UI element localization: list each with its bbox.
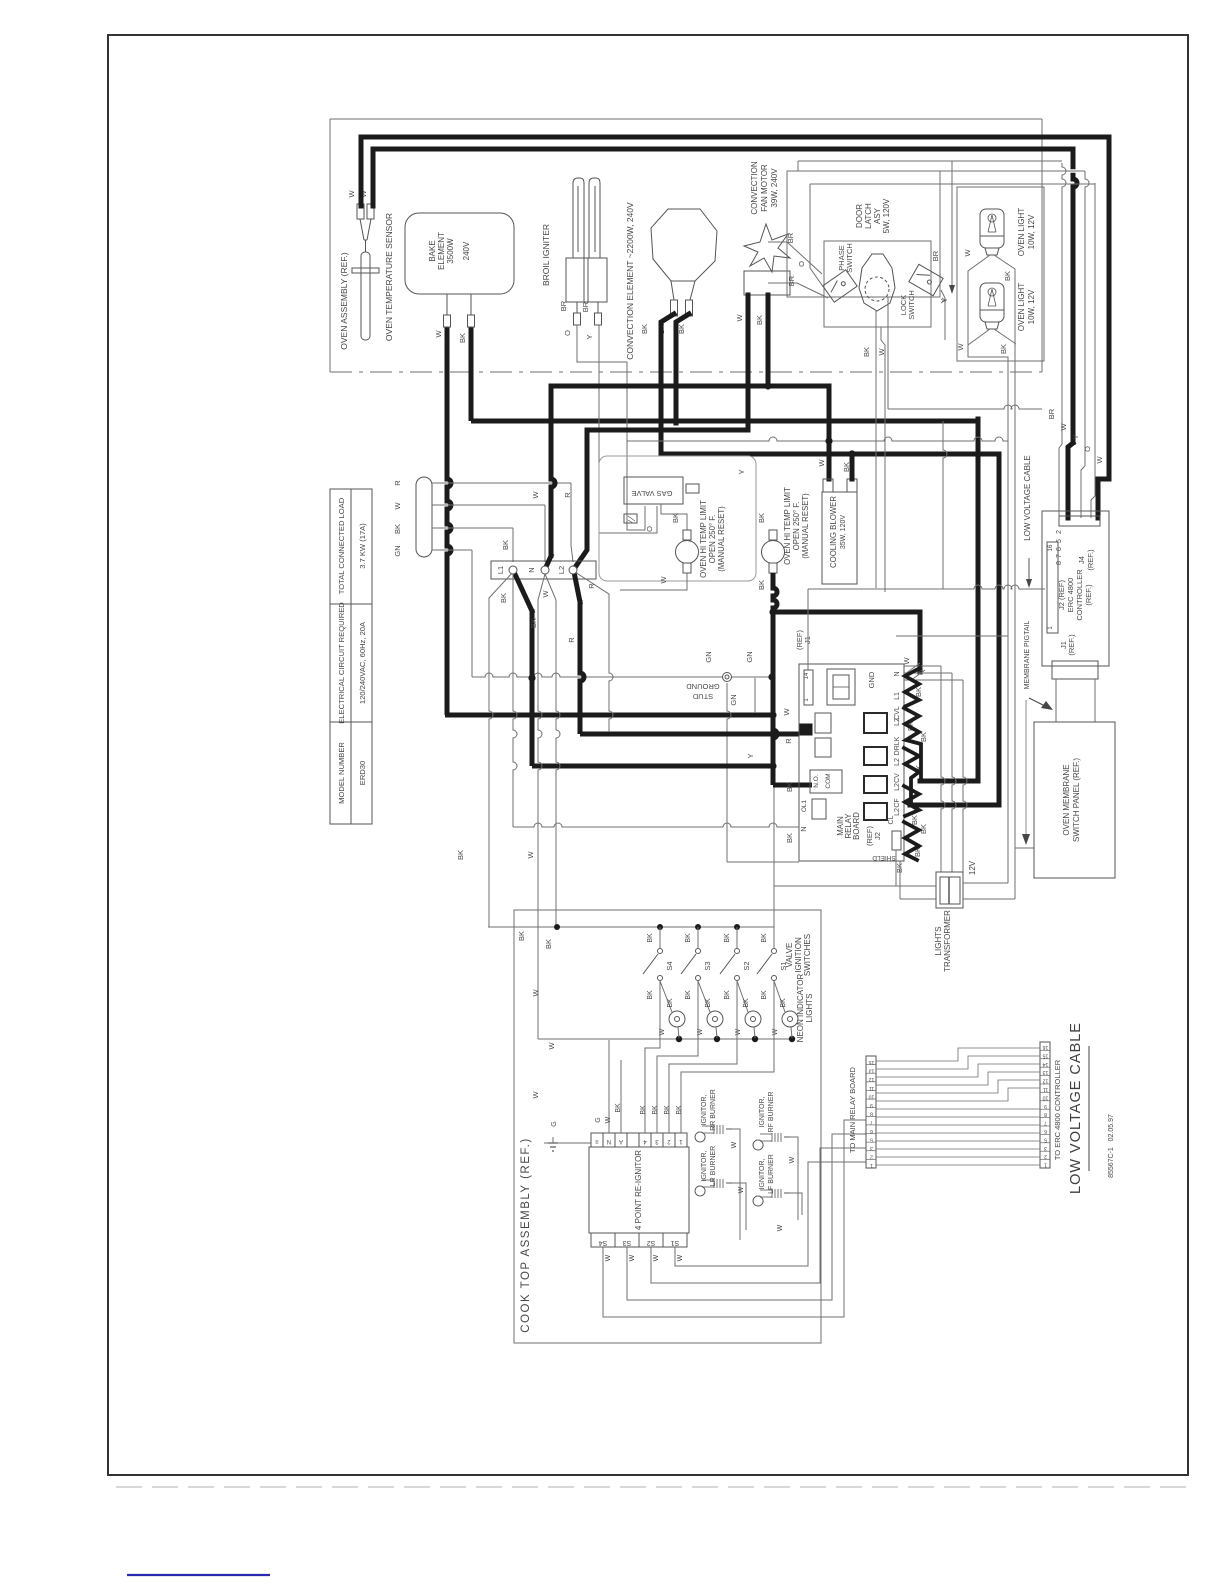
svg-text:5: 5 [870, 1136, 873, 1142]
svg-text:OVEN HI TEMP LIMIT: OVEN HI TEMP LIMIT [783, 487, 792, 565]
cooling blower box [822, 492, 857, 584]
ERC 4800 controller box [1042, 511, 1109, 666]
svg-text:LF BURNER: LF BURNER [768, 1154, 775, 1194]
membrane pigtail arrow 1 [1029, 698, 1047, 707]
svg-text:BK: BK [640, 324, 649, 334]
bake element terminals [444, 315, 451, 327]
wire transformer connections [774, 885, 936, 887]
oven light 1 wires [968, 255, 1008, 883]
wire zigzag N [905, 668, 920, 706]
svg-text:L1: L1 [894, 692, 901, 700]
wire L2 R drop [575, 572, 609, 594]
svg-text:LOW VOLTAGE CABLE: LOW VOLTAGE CABLE [1023, 455, 1032, 541]
svg-text:11: 11 [869, 1085, 874, 1091]
wire door latch right leads [797, 161, 799, 171]
re-ignitor top wires [608, 1040, 610, 1133]
svg-text:S2: S2 [647, 1239, 656, 1246]
svg-text:120/240VAC, 60Hz, 20A: 120/240VAC, 60Hz, 20A [358, 621, 367, 704]
svg-text:N: N [527, 567, 536, 572]
wire door latch leads [768, 242, 822, 274]
power cord [416, 477, 432, 557]
svg-text:W: W [877, 348, 886, 356]
svg-text:12: 12 [1043, 1078, 1049, 1084]
svg-text:R: R [393, 480, 402, 486]
svg-text:13: 13 [1043, 1069, 1049, 1075]
wire W thick from H386 to N [551, 386, 555, 558]
svg-text:BK: BK [761, 990, 768, 1000]
svg-text:W: W [735, 1028, 742, 1035]
svg-text:CV: CV [894, 773, 901, 783]
gas valve wires [661, 504, 687, 530]
svg-text:15: 15 [869, 1059, 875, 1065]
bake element outline [405, 213, 514, 294]
cook top assembly box [514, 910, 821, 1343]
svg-text:OVEN LIGHT: OVEN LIGHT [1017, 208, 1026, 257]
svg-text:Y: Y [940, 297, 949, 302]
svg-text:CL: CL [888, 815, 895, 824]
svg-text:2: 2 [870, 1154, 873, 1160]
svg-text:OVEN ASSEMBLY (REF.): OVEN ASSEMBLY (REF.) [339, 252, 349, 350]
junction dots hi temp 2 [769, 608, 776, 615]
relay component K1 [827, 669, 855, 705]
door latch outer box [787, 171, 940, 297]
wire conv element lead 1 thick [661, 314, 674, 454]
valve ignition switch S3 [697, 927, 699, 948]
wire lock switch route [943, 421, 947, 589]
oven lights enclosure [957, 187, 1044, 361]
membrane pigtail arrow 2 [1025, 700, 1027, 838]
svg-text:IGNITOR,: IGNITOR, [759, 1096, 766, 1127]
phase switch symbol [823, 270, 857, 302]
svg-text:Y: Y [746, 753, 755, 758]
svg-text:COM: COM [825, 773, 832, 788]
svg-text:BK: BK [862, 347, 871, 357]
valve ignition switch S1 [773, 927, 775, 948]
svg-text:BK: BK [914, 687, 923, 697]
svg-text:L2: L2 [894, 758, 901, 766]
svg-text:BR: BR [787, 275, 796, 286]
wire L2 thin drop [545, 574, 556, 600]
wire phase switch O route [887, 297, 889, 409]
svg-text:240V: 240V [462, 241, 471, 260]
svg-text:ELEMENT: ELEMENT [437, 232, 446, 270]
svg-text:W: W [605, 1254, 612, 1261]
svg-text:W: W [629, 1254, 636, 1261]
svg-text:J2 (REF): J2 (REF) [1057, 579, 1066, 610]
svg-text:RR BURNER: RR BURNER [710, 1089, 717, 1131]
oven hi temp limit 2 [769, 530, 777, 540]
wire blower BK thick [850, 454, 855, 479]
svg-text:BK: BK [685, 990, 692, 1000]
wire cord R [432, 482, 571, 484]
svg-text:Y: Y [737, 469, 746, 474]
svg-text:8: 8 [1044, 1111, 1047, 1117]
svg-text:W: W [541, 590, 550, 598]
ignitor RF burner [753, 1140, 763, 1150]
svg-text:IGNITOR,: IGNITOR, [701, 1150, 708, 1181]
svg-text:BR: BR [581, 301, 590, 312]
svg-text:7: 7 [870, 1119, 873, 1125]
svg-text:GN: GN [704, 651, 713, 662]
svg-text:W: W [547, 1042, 556, 1050]
svg-text:5: 5 [1056, 539, 1063, 543]
relay dark K6 [864, 776, 887, 793]
convection fan motor [744, 224, 790, 295]
svg-text:R: R [587, 583, 596, 589]
svg-text:BR: BR [931, 250, 940, 261]
svg-text:S3: S3 [623, 1239, 632, 1246]
svg-text:ERC 4800: ERC 4800 [1066, 578, 1075, 613]
svg-text:O: O [563, 330, 572, 336]
wire zigzag CF L2 [904, 822, 919, 860]
svg-text:7: 7 [1056, 554, 1063, 558]
oven light 2 wires [968, 329, 990, 345]
wire thin W to J4 pin [1062, 163, 1066, 444]
svg-text:ELECTRICAL CIRCUIT REQUIRED: ELECTRICAL CIRCUIT REQUIRED [337, 602, 346, 724]
svg-text:5W, 120V: 5W, 120V [882, 198, 891, 233]
svg-text:W: W [782, 708, 791, 716]
connector TO MAIN RELAY BOARD [866, 1056, 876, 1168]
svg-text:LATCH: LATCH [864, 203, 873, 229]
svg-text:8: 8 [870, 1111, 873, 1117]
door latch inner box [824, 241, 931, 327]
oven light 1 bulb [980, 209, 1004, 248]
wire S4 to strip [603, 1120, 866, 1317]
svg-text:IGNITOR,: IGNITOR, [701, 1094, 708, 1125]
junction dot ground [768, 673, 775, 680]
svg-text:2: 2 [1044, 1153, 1047, 1159]
svg-text:L1: L1 [496, 566, 505, 574]
junction dot blower W [825, 437, 832, 444]
bake element leads [446, 294, 448, 315]
svg-text:O: O [797, 261, 806, 267]
wire conv fan W thick [576, 295, 748, 566]
svg-text:10: 10 [1043, 1094, 1049, 1100]
svg-text:SWITCH: SWITCH [907, 290, 916, 320]
wire cord BK [432, 527, 513, 529]
oven light 2 bulb [980, 283, 1004, 322]
svg-text:W: W [1095, 456, 1104, 464]
broil igniter [566, 178, 607, 325]
svg-text:16: 16 [1043, 1044, 1049, 1050]
svg-text:W: W [772, 1028, 779, 1035]
wire hi temp 2 branch H612 thick [773, 612, 920, 672]
ignitor LR burner [695, 1186, 705, 1196]
svg-text:W: W [738, 1186, 745, 1193]
wire cord W [432, 504, 545, 506]
svg-text:DOOR: DOOR [855, 204, 864, 228]
re-ignitor bottom terminal strip [591, 1233, 615, 1247]
svg-text:BK: BK [757, 580, 766, 590]
wire thick bus A [361, 137, 1109, 518]
wire cord GN ground [432, 549, 472, 551]
controller J4 connector [1059, 516, 1100, 526]
svg-text:LIGHTS: LIGHTS [805, 994, 814, 1023]
wire S3 to strip [627, 1134, 866, 1300]
svg-text:39W, 240V: 39W, 240V [770, 168, 779, 208]
svg-text:W: W [902, 657, 911, 665]
svg-text:BK: BK [647, 933, 654, 943]
lights transformer [936, 872, 963, 908]
svg-text:FAN MOTOR: FAN MOTOR [760, 164, 769, 212]
svg-text:BK: BK [544, 939, 553, 949]
svg-text:N.O.: N.O. [813, 774, 820, 788]
svg-text:(REF.): (REF.) [1084, 584, 1093, 606]
neon indicator light 4 [774, 981, 785, 1012]
svg-text:Y: Y [1071, 434, 1080, 439]
wire gas train thin H441 [627, 437, 1008, 441]
svg-text:S1: S1 [671, 1239, 680, 1246]
svg-text:OVEN MEMBRANE: OVEN MEMBRANE [1062, 764, 1071, 835]
svg-text:W: W [777, 1224, 784, 1231]
svg-text:BK: BK [501, 540, 510, 550]
wire N pin diagonals [905, 663, 920, 674]
svg-text:BR: BR [559, 300, 568, 311]
svg-text:(MANUAL RESET): (MANUAL RESET) [717, 506, 726, 572]
svg-text:SHIELD: SHIELD [872, 854, 896, 861]
oven hi temp limit 1 [683, 530, 691, 540]
svg-text:COOK TOP ASSEMBLY (REF.): COOK TOP ASSEMBLY (REF.) [520, 1137, 532, 1332]
svg-text:10W, 12V: 10W, 12V [1027, 214, 1036, 249]
svg-text:5: 5 [1044, 1136, 1047, 1142]
svg-text:CONVECTION: CONVECTION [750, 161, 759, 215]
svg-text:J4: J4 [1077, 556, 1086, 564]
svg-text:LR BURNER: LR BURNER [710, 1146, 717, 1186]
svg-text:6: 6 [1056, 547, 1063, 551]
oven membrane switch panel box [1034, 722, 1115, 878]
svg-text:COOLING BLOWER: COOLING BLOWER [829, 496, 838, 568]
svg-text:BR: BR [786, 232, 795, 243]
svg-text:TOTAL CONNECTED LOAD: TOTAL CONNECTED LOAD [337, 497, 346, 594]
svg-text:CVL: CVL [894, 706, 901, 720]
svg-text:SWITCH PANEL (REF.): SWITCH PANEL (REF.) [1072, 758, 1081, 842]
svg-text:W: W [731, 1141, 738, 1148]
svg-text:3.7 KW (17A): 3.7 KW (17A) [358, 523, 367, 569]
svg-text:BK: BK [517, 931, 526, 941]
svg-text:G: G [551, 1121, 558, 1126]
wire hi temp 2 bottom thick [773, 573, 777, 785]
svg-text:1: 1 [1044, 1162, 1047, 1168]
svg-text:W: W [735, 314, 744, 322]
svg-text:W: W [963, 249, 972, 257]
svg-text:14: 14 [1043, 1061, 1049, 1067]
svg-text:O: O [645, 526, 654, 532]
svg-text:LOW VOLTAGE CABLE: LOW VOLTAGE CABLE [1068, 1022, 1084, 1194]
svg-text:(REF.): (REF.) [1067, 634, 1076, 656]
wire S1 to strip [675, 1162, 866, 1266]
svg-text:7: 7 [1044, 1120, 1047, 1126]
svg-text:9: 9 [870, 1102, 873, 1108]
wire cook top bus feed [773, 787, 775, 927]
spec table frame [330, 489, 372, 824]
oven assembly boundary box [330, 118, 1042, 120]
svg-text:W: W [817, 459, 826, 467]
svg-text:W: W [605, 1116, 612, 1123]
svg-text:S3: S3 [703, 961, 712, 970]
wire zigzag CV L2 [904, 786, 919, 816]
wire zigzag L1 [904, 708, 921, 781]
svg-text:S4: S4 [665, 961, 674, 970]
terminal pad relay R [799, 724, 812, 735]
svg-text:BOARD: BOARD [852, 812, 861, 840]
wire broil Y [599, 325, 657, 533]
svg-text:BK: BK [724, 933, 731, 943]
terminal block L1 N L2 [491, 561, 596, 579]
relay board J2 connector [892, 831, 901, 850]
svg-text:3500W: 3500W [446, 238, 455, 264]
svg-text:BK: BK [671, 513, 680, 523]
wire conv element lead 2 thick [676, 314, 689, 423]
svg-text:BK: BK [664, 1105, 671, 1115]
svg-text:OVEN HI TEMP LIMIT: OVEN HI TEMP LIMIT [699, 500, 708, 578]
relay board J1 connector [804, 670, 813, 705]
svg-text:BK: BK [761, 933, 768, 943]
4 point re-ignitor box [589, 1147, 689, 1233]
svg-text:BK: BK [919, 732, 928, 742]
svg-text:GROUND: GROUND [686, 682, 720, 691]
svg-text:R: R [784, 738, 793, 744]
svg-text:W: W [531, 491, 540, 499]
ignitor LF burner [753, 1196, 763, 1206]
svg-text:BK: BK [724, 990, 731, 1000]
svg-text:BK: BK [652, 1105, 659, 1115]
svg-text:12V: 12V [968, 860, 977, 875]
svg-text:BK: BK [757, 513, 766, 523]
svg-text:R: R [563, 492, 572, 498]
svg-text:L2: L2 [894, 808, 901, 816]
relay dark K4 [864, 713, 887, 733]
terminal block circles [509, 566, 517, 574]
svg-text:W: W [677, 1254, 684, 1261]
neon indicator light 3 [737, 981, 748, 1012]
svg-text:W: W [1059, 423, 1068, 431]
svg-text:16: 16 [1048, 544, 1054, 551]
valve ignition switch S4 [659, 927, 661, 948]
svg-text:L2: L2 [894, 718, 901, 726]
svg-text:L2: L2 [557, 566, 566, 574]
svg-text:BR: BR [1047, 408, 1056, 419]
svg-text:14: 14 [804, 672, 810, 679]
svg-text:BK: BK [456, 850, 465, 860]
svg-text:BK: BK [499, 593, 508, 603]
wire L1 thin drops [489, 572, 513, 598]
svg-text:≡: ≡ [595, 1138, 599, 1144]
re-ignitor top terminal strip [591, 1133, 603, 1147]
svg-text:8: 8 [1056, 561, 1063, 565]
svg-text:W: W [653, 1254, 660, 1261]
svg-text:CONVECTION ELEMENT ~2200W, 240: CONVECTION ELEMENT ~2200W, 240V [625, 202, 635, 360]
svg-text:6: 6 [1044, 1128, 1047, 1134]
svg-text:S2: S2 [742, 961, 751, 970]
svg-text:SWITCH: SWITCH [845, 243, 854, 273]
ground symbol [544, 1142, 591, 1144]
svg-text:A: A [619, 1138, 623, 1144]
svg-text:(MANUAL RESET): (MANUAL RESET) [801, 493, 810, 559]
svg-text:LIGHTS: LIGHTS [934, 927, 943, 956]
svg-text:TRANSFORMER: TRANSFORMER [943, 910, 952, 972]
svg-text:Y: Y [585, 334, 594, 339]
svg-text:IGNITOR,: IGNITOR, [759, 1158, 766, 1189]
svg-text:3: 3 [1044, 1145, 1047, 1151]
relay OL1 [812, 799, 826, 819]
svg-text:ERD30: ERD30 [358, 761, 367, 785]
svg-text:12: 12 [869, 1076, 875, 1082]
svg-text:IGNITION: IGNITION [794, 937, 803, 973]
svg-text:1: 1 [870, 1162, 873, 1168]
wire board GND feeds [904, 665, 941, 667]
wire N thin drops [538, 574, 545, 600]
svg-text:OVEN LIGHT: OVEN LIGHT [1017, 283, 1026, 332]
svg-text:15: 15 [1043, 1052, 1049, 1058]
oven temperature sensor [352, 204, 379, 340]
svg-text:STUD: STUD [692, 692, 713, 701]
svg-text:OPEN 250° F.: OPEN 250° F. [792, 502, 801, 551]
svg-text:BROIL IGNITER: BROIL IGNITER [541, 224, 551, 286]
low voltage cable wires [876, 1048, 1040, 1061]
svg-text:BK: BK [1003, 271, 1012, 281]
wire L1 straight drop [513, 574, 517, 827]
svg-text:BK: BK [685, 933, 692, 943]
svg-text:BK: BK [529, 618, 538, 628]
svg-text:ASY: ASY [873, 207, 882, 224]
neon indicator light 1 [660, 981, 672, 1012]
svg-text:GN: GN [745, 651, 754, 662]
svg-text:W: W [956, 343, 965, 351]
svg-text:6: 6 [870, 1128, 873, 1134]
svg-text:2: 2 [1056, 530, 1063, 534]
svg-text:13: 13 [869, 1068, 875, 1074]
gas valve [624, 477, 683, 504]
ground stud chassis drops [727, 683, 731, 862]
wire main H386 thick [551, 386, 829, 479]
svg-text:CF: CF [894, 798, 901, 807]
svg-text:W: W [526, 851, 535, 859]
neon indicator light 2 [698, 981, 710, 1012]
svg-text:L2: L2 [894, 783, 901, 791]
svg-text:4 POINT RE-IGNITOR: 4 POINT RE-IGNITOR [634, 1150, 643, 1230]
svg-text:BK: BK [999, 344, 1008, 354]
svg-text:BK: BK [393, 524, 402, 534]
main relay board outline [799, 664, 904, 861]
svg-text:10: 10 [869, 1093, 875, 1099]
relay dark K5 [864, 747, 887, 765]
wire bake W thick [447, 327, 451, 715]
svg-text:G: G [595, 1117, 602, 1122]
junction dots conv [657, 417, 664, 424]
svg-text:GN: GN [729, 694, 738, 705]
re-ignitor BK drops from switches [645, 981, 660, 1133]
wire L2 fan thick [574, 572, 580, 602]
svg-text:NEON INDICATOR: NEON INDICATOR [796, 973, 805, 1042]
svg-text:DRLK: DRLK [894, 736, 901, 755]
svg-text:N: N [894, 671, 901, 676]
wire stud to board [727, 861, 799, 863]
svg-text:BK: BK [676, 1105, 683, 1115]
svg-text:BK: BK [640, 1105, 647, 1115]
svg-text:SWITCHES: SWITCHES [803, 934, 812, 976]
wire hi temp 1 bottom [620, 573, 687, 590]
svg-text:S4: S4 [599, 1239, 608, 1246]
connector TO ERC 4800 CONTROLLER [1040, 1042, 1050, 1168]
ignitor RR burner [695, 1132, 705, 1142]
svg-text:CONTROLLER: CONTROLLER [1075, 569, 1084, 621]
svg-text:W: W [434, 330, 443, 338]
svg-text:OPEN 250° F.: OPEN 250° F. [708, 515, 717, 564]
svg-text:GND: GND [867, 671, 876, 688]
svg-text:MODEL NUMBER: MODEL NUMBER [337, 742, 346, 804]
svg-text:O: O [1083, 446, 1092, 452]
convection element outline [651, 209, 717, 281]
